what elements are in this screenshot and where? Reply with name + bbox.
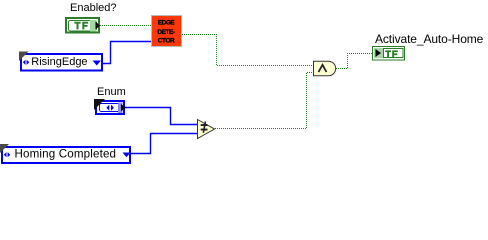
svg-text:Enum: Enum [97, 86, 126, 98]
svg-text:DETE-: DETE- [157, 29, 175, 36]
svg-text:RisingEdge: RisingEdge [31, 56, 87, 68]
svg-text:Activate_Auto-Home: Activate_Auto-Home [375, 32, 484, 46]
svg-text:CTOR: CTOR [158, 38, 175, 45]
svg-text:Homing Completed: Homing Completed [15, 148, 117, 161]
svg-text:EDGE: EDGE [158, 20, 176, 27]
svg-text:Enabled?: Enabled? [70, 2, 117, 14]
